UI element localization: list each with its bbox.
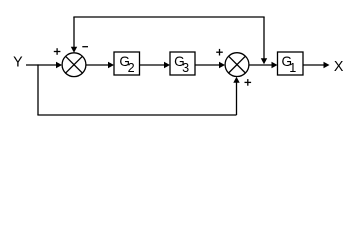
arrowhead into S1 from top: [71, 47, 77, 53]
sign plus at S1 left input: [54, 51, 61, 53]
block G2 box: [114, 52, 140, 75]
arrowhead top feedback onto wire at x=264: [261, 58, 267, 64]
svg-text:Y: Y: [13, 54, 23, 70]
arrowhead into G1: [272, 62, 278, 68]
summing junction S2 circle: [225, 53, 249, 77]
arrowhead into S1 from left: [56, 62, 62, 68]
wire top feedback vertical into S1: [73, 17, 75, 48]
block G3 box: [170, 52, 195, 75]
sign plus at S2 bottom input: [245, 81, 252, 83]
wire top feedback vertical down at x=264: [263, 17, 265, 59]
summing junction S1 circle: [62, 53, 86, 77]
arrowhead into G2: [108, 62, 114, 68]
svg-text:1: 1: [289, 61, 296, 75]
sign minus at S1 top input: [82, 46, 88, 48]
wire S2 to G1: [249, 64, 272, 66]
wire takeoff vertical at node T1: [37, 64, 39, 115]
wire top feedback horizontal: [73, 16, 264, 18]
block G1 box: [278, 52, 304, 75]
wire G2 to G3: [140, 64, 165, 66]
wire S1 to G2: [86, 64, 109, 66]
arrowhead into S2 from bottom: [233, 77, 239, 83]
wire G1 output: [303, 64, 324, 66]
summing junction S1 cross: [66, 56, 83, 73]
svg-text:2: 2: [128, 61, 135, 75]
arrowhead into S2 from left: [219, 62, 225, 68]
sign plus at S2 left input: [216, 51, 223, 53]
wire bottom feedback horizontal: [37, 114, 236, 116]
wire input from Y: [26, 64, 57, 66]
svg-text:X: X: [334, 59, 344, 75]
svg-text:3: 3: [182, 61, 189, 75]
arrowhead output to X: [324, 62, 330, 68]
arrowhead into G3: [164, 62, 170, 68]
wire G3 to S2: [195, 64, 220, 66]
wire bottom feedback vertical up into summer S2: [236, 81, 238, 115]
summing junction S2 cross: [229, 56, 246, 73]
